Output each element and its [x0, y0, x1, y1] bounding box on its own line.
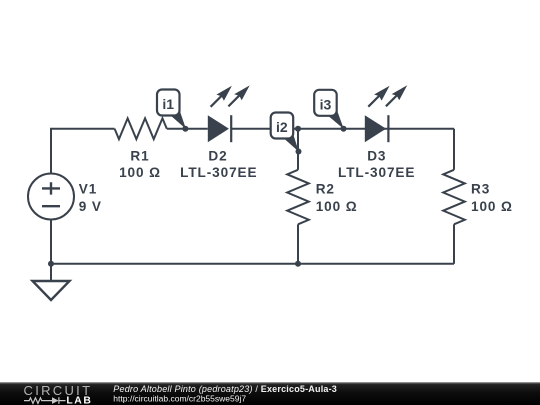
V1 value labels [79, 182, 102, 214]
svg-text:LAB: LAB [66, 396, 92, 405]
wire left rail from V1 top to R1 [51, 129, 115, 174]
resistor R3 [443, 170, 465, 224]
footer bar [0, 382, 540, 405]
wire right rail top [453, 129, 455, 170]
probe i1 pointer [161, 98, 186, 129]
wire R1 to D2 anode [167, 128, 208, 130]
node ground junction [48, 261, 54, 267]
probe i3 pointer [319, 98, 344, 129]
R3 labels [471, 182, 513, 214]
svg-text:100 Ω: 100 Ω [316, 199, 358, 214]
node R2 bottom junction [295, 261, 301, 267]
probe i3 box [314, 90, 337, 116]
svg-text:100 Ω: 100 Ω [471, 199, 513, 214]
probe i2 box [271, 113, 294, 139]
svg-text:i1: i1 [162, 96, 174, 112]
wire D2 cathode to R3 top rail [232, 128, 454, 130]
svg-text:LTL-307EE: LTL-307EE [180, 165, 257, 180]
LED D3 [365, 85, 407, 142]
node at D2 cathode / R2 branch [295, 126, 301, 132]
svg-text:http://circuitlab.com/cr2b55sw: http://circuitlab.com/cr2b55swe59j7 [113, 393, 246, 403]
probe i1 box [157, 90, 180, 116]
voltage source V1 [28, 174, 74, 220]
svg-text:R3: R3 [471, 182, 490, 197]
wire right rail bottom [453, 224, 455, 263]
wire bottom rail [51, 263, 454, 265]
svg-text:LTL-307EE: LTL-307EE [338, 165, 415, 180]
wire V1 bottom to ground node [50, 220, 52, 264]
node i2 probe point on R2 branch [296, 149, 302, 155]
R1 labels [119, 149, 161, 181]
svg-text:9 V: 9 V [79, 199, 102, 214]
probe i2 pointer [275, 121, 299, 152]
CircuitLab logo resistor-diode line [24, 397, 66, 404]
svg-text:100 Ω: 100 Ω [119, 165, 161, 180]
R2 labels [316, 182, 358, 214]
D2 labels [180, 149, 257, 181]
svg-text:D3: D3 [367, 149, 386, 164]
ground [33, 264, 70, 300]
svg-text:R2: R2 [316, 182, 335, 197]
resistor R1 [115, 118, 167, 139]
LED D2 [208, 85, 250, 142]
D3 labels [338, 149, 415, 181]
node at R1/D2 (i1 probe point) [182, 126, 188, 132]
svg-text:D2: D2 [208, 149, 227, 164]
svg-text:i2: i2 [276, 119, 288, 135]
node i3 probe point [341, 126, 347, 132]
wire R2 bottom [297, 224, 299, 263]
wire R2 branch top [297, 129, 299, 170]
svg-text:V1: V1 [79, 182, 97, 197]
svg-text:R1: R1 [130, 149, 149, 164]
resistor R2 [287, 170, 309, 224]
svg-text:i3: i3 [320, 96, 332, 112]
